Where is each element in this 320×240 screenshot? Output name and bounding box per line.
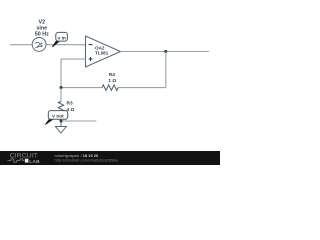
wire plus input horizontal — [61, 58, 86, 60]
resistor R3 — [58, 102, 63, 121]
node junction v out — [59, 119, 62, 122]
svg-text:R3: R3 — [67, 101, 73, 107]
wire op-amp output — [121, 51, 209, 53]
label R4 1 ohm — [108, 72, 116, 84]
svg-text:http://circuitlab.com/c/ba5d0c: http://circuitlab.com/c/ba5d0c6285dw — [55, 159, 119, 163]
ground — [55, 121, 66, 133]
voltage source V2 — [32, 38, 46, 52]
CircuitLab logo — [8, 153, 41, 165]
node junction output — [164, 50, 167, 53]
node junction feedback — [59, 86, 62, 89]
wire R4 left to node — [61, 87, 102, 89]
svg-text:50 Hz: 50 Hz — [35, 32, 49, 38]
resistor R4 — [102, 85, 118, 90]
label V2 sine 50 Hz — [35, 20, 49, 38]
svg-text:R4: R4 — [109, 72, 115, 78]
wire plus input vertical — [60, 59, 62, 88]
wire feedback bottom right of R4 — [118, 87, 166, 89]
wire input left segment — [10, 44, 32, 46]
svg-text:LAB: LAB — [29, 159, 40, 165]
op-amp OA2 TL081 — [86, 36, 121, 67]
svg-text:v in: v in — [58, 35, 66, 41]
wire source to op-amp minus input — [46, 44, 86, 46]
svg-text:v out: v out — [52, 114, 64, 120]
node flag v out — [45, 111, 67, 125]
wire feedback vertical right — [165, 52, 167, 88]
svg-text:robertgrapan / 18 19 20: robertgrapan / 18 19 20 — [55, 153, 99, 158]
footer bar — [0, 151, 220, 165]
svg-text:1 Ω: 1 Ω — [108, 78, 116, 84]
wire v out stub right — [61, 120, 96, 122]
svg-text:TL081: TL081 — [95, 51, 109, 56]
label R3 4 ohm — [67, 101, 75, 113]
wire node to R3 top — [60, 88, 62, 102]
svg-text:OA2: OA2 — [95, 45, 105, 50]
node flag v in — [52, 32, 67, 47]
